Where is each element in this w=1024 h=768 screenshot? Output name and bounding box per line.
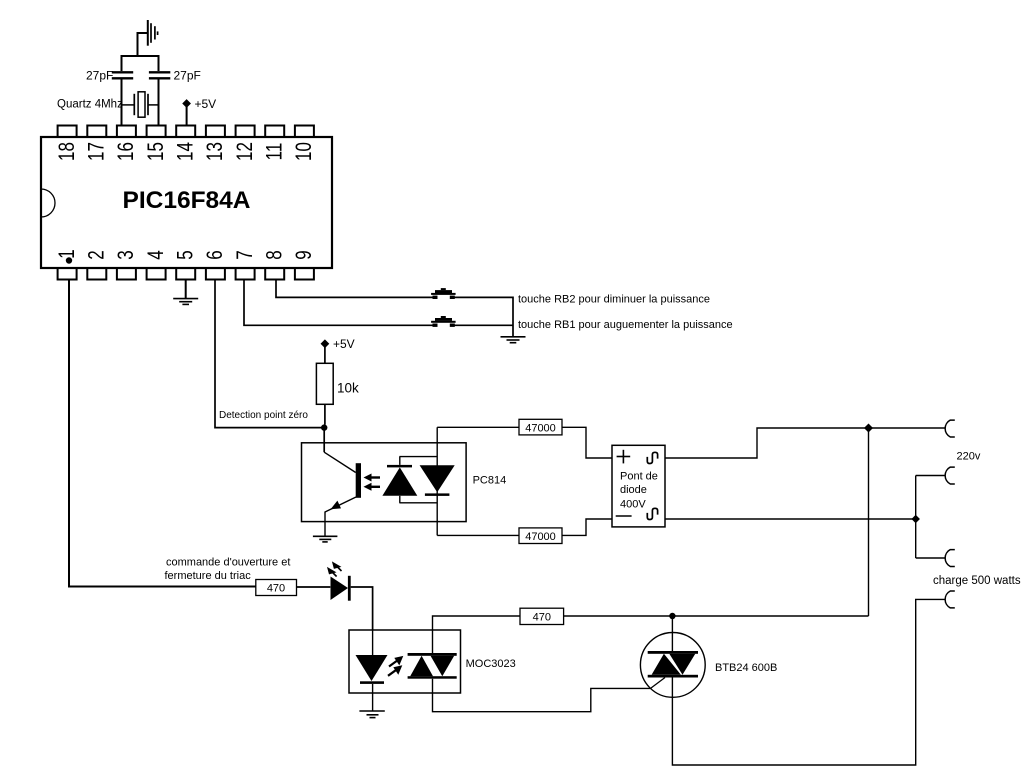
svg-text:touche RB2 pour diminuer la pu: touche RB2 pour diminuer la puissance xyxy=(518,294,710,306)
optocoupler U2 PC814 box xyxy=(302,443,467,522)
resistor R1 10k xyxy=(316,363,359,424)
pin 4 xyxy=(144,250,169,279)
wire MOC triac bottom to BTB24 gate xyxy=(433,679,651,712)
wire pin5 to ground xyxy=(185,280,187,299)
svg-text:touche RB1 pour auguementer la: touche RB1 pour auguementer la puissance xyxy=(518,319,733,331)
+5V supply (10k pullup) xyxy=(321,337,355,363)
pin 11 xyxy=(262,126,287,161)
wire RB1 button to ground stem xyxy=(450,324,513,326)
transistor Q1 (photo) xyxy=(324,452,361,536)
pin 8 xyxy=(262,250,287,279)
IC U1 PIC16F84A body xyxy=(41,137,332,268)
ground (top, rotated) xyxy=(138,20,158,56)
ground (PC814 emitter) xyxy=(313,536,338,542)
pushbutton RB2 xyxy=(431,288,456,299)
pin 7 xyxy=(233,250,258,279)
svg-text:14: 14 xyxy=(173,142,198,161)
wire PC814 LED bottom rail xyxy=(399,502,437,504)
pin 2 xyxy=(85,250,110,279)
svg-text:470: 470 xyxy=(267,583,285,595)
svg-text:4: 4 xyxy=(144,250,169,260)
plug contact 2 (220v) xyxy=(945,467,955,484)
svg-text:16: 16 xyxy=(114,142,139,161)
svg-text:27pF: 27pF xyxy=(86,69,113,83)
pin 17 xyxy=(85,126,110,161)
optotriac U3 MOC3023 box xyxy=(349,630,461,693)
svg-text:2: 2 xyxy=(85,250,110,259)
svg-text:12: 12 xyxy=(233,142,258,161)
ground (buttons) xyxy=(501,337,526,343)
wire LED to MOC xyxy=(351,587,373,630)
wire 470 to LED xyxy=(297,586,331,588)
svg-text:17: 17 xyxy=(85,142,110,161)
bridge rectifier BR1 box xyxy=(612,445,665,527)
pin 9 xyxy=(292,250,317,279)
wire pin7 to RB1 button xyxy=(244,280,437,326)
wire 470 to triac junction xyxy=(564,615,869,617)
pin 15 xyxy=(144,126,169,161)
svg-text:470: 470 xyxy=(533,611,551,623)
svg-text:+5V: +5V xyxy=(195,97,217,111)
svg-text:400V: 400V xyxy=(620,499,646,511)
diode D4 (MOC LED) xyxy=(356,630,388,711)
resistor R3 47000 xyxy=(519,528,562,544)
wire (caps top junction) xyxy=(122,55,159,57)
svg-text:18: 18 xyxy=(55,142,80,161)
bridge minus symbol xyxy=(616,515,632,517)
crystal X1 Quartz 4Mhz xyxy=(57,92,159,117)
svg-text:27pF: 27pF xyxy=(174,69,201,83)
triac Q2 BTB24 600B xyxy=(640,616,705,697)
diode D2 (PC814 LED up) xyxy=(382,457,417,503)
wire MOC triac top to 470 xyxy=(433,616,521,653)
pushbutton RB1 xyxy=(431,316,456,327)
pin 5 xyxy=(173,250,198,279)
wire plug4 to triac bottom xyxy=(672,599,944,765)
light arrows (MOC) xyxy=(388,656,403,676)
svg-text:10k: 10k xyxy=(337,381,359,396)
wire junction down to triac line xyxy=(868,428,870,616)
svg-text:fermeture du triac: fermeture du triac xyxy=(165,570,252,582)
bridge top ac symbol xyxy=(647,452,657,463)
svg-text:7: 7 xyxy=(233,250,258,259)
pin 18 xyxy=(55,126,80,161)
wire PC814 to bottom 47000 xyxy=(437,534,519,536)
light arrows (PC814) xyxy=(364,474,381,491)
light arrows (LED D1) xyxy=(327,561,342,576)
svg-text:PIC16F84A: PIC16F84A xyxy=(122,187,250,214)
label commande xyxy=(165,557,291,583)
wire PC814 to top 47000 xyxy=(437,426,519,428)
svg-text:5: 5 xyxy=(173,250,198,260)
svg-text:commande d'ouverture et: commande d'ouverture et xyxy=(166,557,290,569)
svg-text:13: 13 xyxy=(203,142,228,161)
resistor R5 470 xyxy=(520,608,564,624)
svg-text:Quartz 4Mhz: Quartz 4Mhz xyxy=(57,99,123,111)
diode D3 (PC814 LED down) xyxy=(420,465,455,496)
wire junction to plug 1 xyxy=(871,427,945,429)
pin 13 xyxy=(203,126,228,161)
pin 6 xyxy=(203,250,228,279)
svg-text:8: 8 xyxy=(262,250,287,259)
resistor R2 47000 xyxy=(519,419,562,435)
svg-text:15: 15 xyxy=(144,142,169,161)
pin 3 xyxy=(114,250,139,279)
svg-text:47000: 47000 xyxy=(525,422,556,434)
svg-text:220v: 220v xyxy=(957,451,981,463)
svg-text:Pont de: Pont de xyxy=(620,471,658,483)
svg-text:MOC3023: MOC3023 xyxy=(466,658,516,670)
triac (inside MOC3023) xyxy=(408,653,457,679)
svg-text:charge 500 watts: charge 500 watts xyxy=(933,575,1021,587)
pin 14 xyxy=(173,126,198,161)
wire RB2 button to ground stem xyxy=(450,297,513,336)
wire bridge + output xyxy=(665,428,865,458)
wire junction into PC814 collector xyxy=(323,430,325,452)
wire 220v plugs vertical xyxy=(915,476,917,559)
wire plug2 xyxy=(916,475,945,477)
svg-text:10: 10 xyxy=(292,142,317,161)
ground (pin 5) xyxy=(173,299,198,305)
bridge bottom ac symbol xyxy=(647,508,657,519)
pin 12 xyxy=(233,126,258,161)
wire plug3 xyxy=(916,557,945,559)
resistor R4 470 xyxy=(256,580,297,596)
svg-text:Detection point zéro: Detection point zéro xyxy=(219,410,308,421)
pin 10 xyxy=(292,126,317,161)
svg-text:+5V: +5V xyxy=(333,337,355,351)
node junction 220v top xyxy=(864,423,873,432)
wire pin8 to RB2 button xyxy=(276,280,437,298)
svg-text:9: 9 xyxy=(292,250,317,259)
plug contact 4 (charge) xyxy=(945,591,955,608)
wire top 47000 to bridge xyxy=(562,427,612,458)
svg-text:11: 11 xyxy=(262,143,287,161)
wire bottom 47000 to bridge xyxy=(562,519,612,535)
wire PC814 LED top rail xyxy=(399,456,437,458)
pin 1 xyxy=(55,249,80,279)
plug contact 3 xyxy=(945,550,955,567)
wire PC814 AC vertical xyxy=(436,427,438,535)
svg-text:47000: 47000 xyxy=(525,531,556,543)
capacitor C2 27pF xyxy=(149,55,201,126)
plug contact 1 xyxy=(945,420,955,437)
+5V supply (pin 14) xyxy=(182,97,216,126)
svg-text:diode: diode xyxy=(620,484,647,496)
bridge plus symbol xyxy=(617,450,631,464)
svg-text:BTB24 600B: BTB24 600B xyxy=(715,662,777,674)
ground (MOC LED) xyxy=(359,711,384,718)
svg-text:6: 6 xyxy=(203,250,228,259)
node zero-cross junction xyxy=(321,424,327,430)
node triac top junction xyxy=(669,613,675,619)
capacitor C1 27pF xyxy=(86,55,133,126)
wire bridge - output xyxy=(665,518,913,520)
label Pont de diode 400V xyxy=(620,471,658,511)
wire pin6 down to zero-cross node xyxy=(215,280,322,428)
wire pin1 to 470 resistor xyxy=(69,280,256,587)
LED D1 xyxy=(331,576,351,601)
svg-text:1: 1 xyxy=(55,249,80,258)
svg-text:PC814: PC814 xyxy=(473,475,507,487)
svg-text:3: 3 xyxy=(114,250,139,259)
node junction 220v bottom xyxy=(911,515,919,523)
pin 16 xyxy=(114,126,139,161)
